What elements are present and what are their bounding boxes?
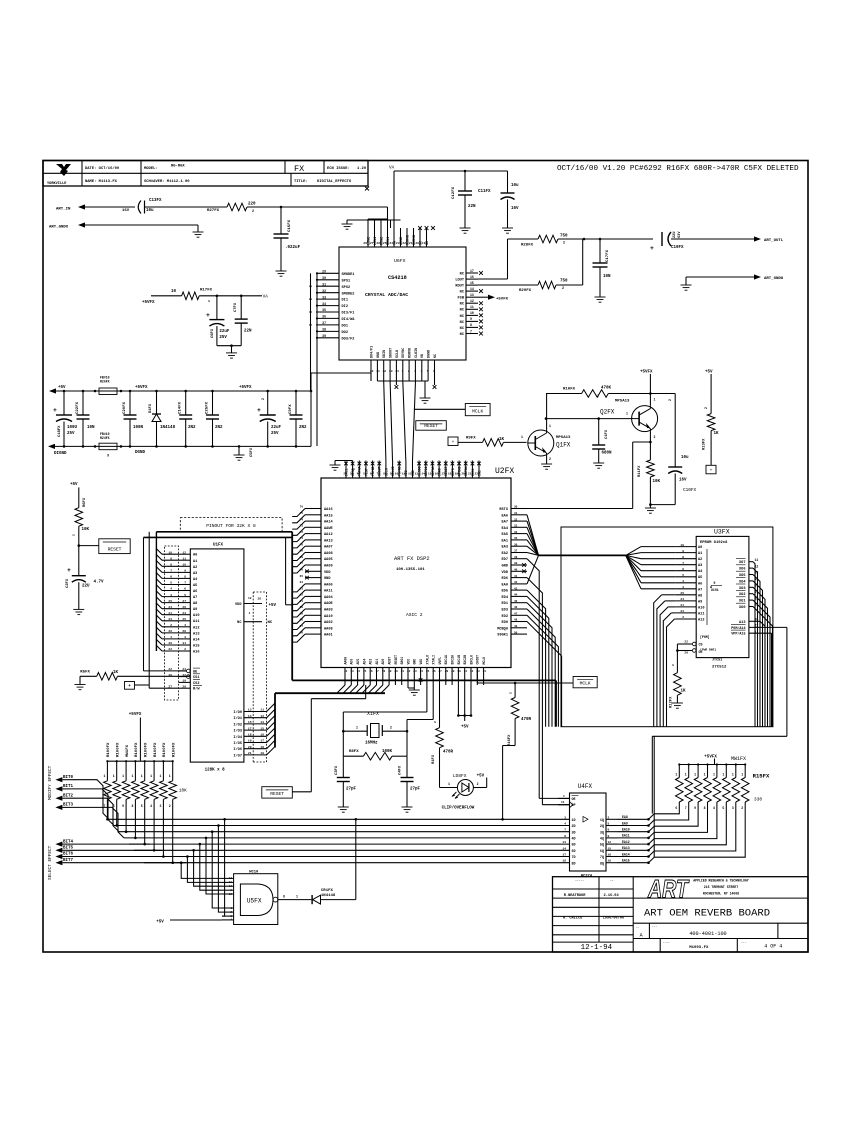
- svg-text:AD1: AD1: [375, 659, 379, 665]
- wire A4 connector fan: [156, 572, 179, 578]
- wire AA stair 12: [292, 584, 305, 592]
- U6FX pin 10 NC: [460, 311, 483, 319]
- svg-text:16: 16: [608, 854, 612, 857]
- U2FX top pin RESET: [441, 461, 448, 479]
- net EA8: [622, 815, 628, 819]
- svg-text:2: 2: [169, 804, 171, 808]
- U4FX pin 9 Q4: [600, 835, 617, 842]
- svg-text:1: 1: [654, 398, 656, 402]
- box PINOUT FOR 32K X 8: [180, 518, 282, 533]
- svg-text:DATE: OCT/16/00: DATE: OCT/16/00: [85, 166, 120, 171]
- svg-text:EA0: EA0: [502, 583, 508, 587]
- U2FX right pin ED4: [502, 594, 527, 600]
- net +5VFX resnet: [129, 713, 142, 761]
- svg-text:C6FX: C6FX: [211, 328, 215, 338]
- svg-text:2: 2: [704, 407, 708, 409]
- wire EA bus line: [539, 554, 626, 556]
- wire A1 connector fan: [156, 554, 179, 560]
- svg-text:--: --: [610, 880, 614, 883]
- svg-text:1: 1: [122, 774, 124, 778]
- wire R16FX down to bus: [501, 719, 515, 821]
- svg-text:+5V: +5V: [58, 386, 66, 390]
- svg-text:R1FX: R1FX: [432, 754, 436, 764]
- svg-text:5: 5: [682, 574, 684, 577]
- wire A3 connector fan: [156, 566, 179, 572]
- U2FX bottom pin XTALO: [425, 655, 429, 685]
- net +5VFX at R17FX: [142, 296, 182, 305]
- svg-text:750: 750: [560, 280, 568, 284]
- svg-text:A: A: [640, 933, 643, 939]
- svg-text:JTCS1: JTCS1: [712, 659, 722, 663]
- svg-text:11: 11: [260, 709, 264, 712]
- svg-text:LD8FX: LD8FX: [453, 773, 467, 779]
- U3FX pin A9: [676, 598, 703, 604]
- crystal X1FX: [356, 711, 392, 746]
- svg-text:GND: GND: [413, 659, 417, 665]
- svg-text:6: 6: [608, 829, 610, 832]
- wire EA to A1: [626, 553, 676, 556]
- svg-text:9: 9: [122, 804, 124, 808]
- wire OE feed: [144, 670, 187, 672]
- svg-text:1: 1: [704, 773, 706, 777]
- svg-text:20: 20: [415, 242, 419, 245]
- svg-text:+: +: [710, 468, 713, 473]
- wire resnet rail: [106, 760, 173, 762]
- svg-text:99GK1: 99GK1: [497, 634, 508, 638]
- wire AAOE jog: [286, 537, 293, 604]
- svg-text:28: 28: [182, 630, 186, 633]
- svg-text:2: 2: [608, 816, 610, 819]
- wire bus to U5FX input 7: [222, 818, 226, 916]
- svg-text:1: 1: [694, 773, 696, 777]
- svg-text:+5VFX: +5VFX: [129, 713, 142, 717]
- wire I/O fan 7: [267, 747, 275, 755]
- svg-text:C9FX: C9FX: [289, 404, 293, 414]
- wire AA stair 5: [292, 540, 305, 548]
- ground C2FX: [73, 609, 84, 614]
- svg-text:AA08: AA08: [324, 552, 333, 556]
- resistor network element 1: [654, 765, 683, 814]
- svg-text:3D: 3D: [572, 831, 576, 835]
- svg-text:100-1355-101: 100-1355-101: [396, 568, 425, 572]
- wire AA stair 3: [292, 527, 305, 535]
- svg-text:34: 34: [483, 670, 487, 673]
- svg-text:OCT/16/00 V1.20 PC#6292 R16FX: OCT/16/00 V1.20 PC#6292 R16FX 680R->470R…: [557, 165, 799, 173]
- diode CR1FX: [312, 889, 336, 904]
- svg-text:470K: 470K: [601, 387, 612, 391]
- svg-text:46: 46: [514, 606, 518, 609]
- net ART_GNDX: [49, 222, 85, 229]
- U4FX pin 13 D5: [562, 841, 575, 848]
- svg-text:49: 49: [514, 625, 518, 628]
- svg-text:4 OF 4: 4 OF 4: [764, 944, 782, 950]
- svg-text:8: 8: [470, 323, 472, 327]
- svg-text:1K: 1K: [113, 671, 119, 675]
- svg-text:18: 18: [382, 670, 386, 673]
- U6FX pin 13 FSB: [458, 293, 478, 301]
- wire XTALO link: [343, 685, 427, 731]
- U2FX bottom pin BXC2A: [451, 655, 455, 685]
- svg-text:DO2: DO2: [342, 331, 348, 335]
- svg-text:ADBT: ADBT: [388, 657, 392, 665]
- svg-text:SPS2: SPS2: [342, 286, 351, 290]
- U6FX pin 30 SPS1: [316, 276, 350, 284]
- svg-text:CLKIN: CLKIN: [415, 348, 419, 358]
- svg-text:6: 6: [682, 568, 684, 571]
- svg-text:10: 10: [680, 544, 684, 547]
- U1FX pin A15: [168, 642, 199, 648]
- box MCLK lower: [573, 677, 597, 688]
- wire bus to U5FX input 4: [205, 837, 222, 894]
- U1FX pin A13: [168, 630, 199, 636]
- svg-text:100N: 100N: [133, 426, 144, 430]
- svg-text:ART: ART: [647, 876, 690, 904]
- svg-text:2: 2: [672, 664, 675, 666]
- U3FX pin XO3: [736, 584, 758, 591]
- wire AA stair 13: [292, 590, 305, 598]
- wire crystal left: [342, 730, 367, 733]
- svg-text:SPS1: SPS1: [342, 279, 351, 283]
- wire BIT7 route: [70, 862, 186, 864]
- U4FX pin 18 D8: [562, 860, 575, 867]
- box RESET left: [78, 539, 131, 554]
- IC U3FX EPROM: [696, 529, 749, 670]
- svg-text:4: 4: [184, 624, 186, 627]
- U2FX top pin TEST: [363, 461, 368, 479]
- U2FX left pin VDD: [300, 569, 332, 575]
- svg-text:3: 3: [184, 636, 186, 639]
- U6FX pin 21 RSRVD: [409, 228, 417, 247]
- svg-text:19: 19: [260, 752, 264, 755]
- U6FX pin 23 AGND: [396, 228, 404, 247]
- wire bus to U5FX input 2: [192, 849, 222, 886]
- svg-text:ECN ISSUE:: ECN ISSUE:: [327, 167, 350, 171]
- net EA10: [622, 828, 630, 832]
- svg-text:19: 19: [608, 860, 612, 863]
- ground C6FX: [226, 353, 237, 358]
- svg-text:S8G1: S8G1: [400, 657, 404, 665]
- svg-text:LOUT: LOUT: [455, 278, 464, 282]
- svg-text:C25FX: C25FX: [206, 401, 210, 414]
- U2FX bottom pin BXCLK: [469, 655, 473, 685]
- svg-text:R100FX: R100FX: [117, 742, 121, 757]
- svg-text:SELECT EFFECT: SELECT EFFECT: [48, 845, 53, 880]
- IC U1FX RAM: [190, 544, 244, 773]
- svg-text:NAME: M1113-FX: NAME: M1113-FX: [85, 180, 118, 184]
- svg-text:11: 11: [561, 801, 565, 804]
- svg-text:10N: 10N: [87, 426, 95, 430]
- svg-text:31: 31: [514, 512, 518, 515]
- resistor R28FX: [508, 235, 569, 248]
- U1FX pin A5: [170, 582, 197, 588]
- U4FX pin 14 D6: [562, 847, 575, 854]
- U2FX bottom pin AD4: [362, 659, 366, 685]
- U1FX pin A3: [170, 570, 197, 576]
- svg-text:5: 5: [141, 804, 143, 808]
- svg-text:+5V: +5V: [477, 775, 485, 779]
- U2FX left pin AA08: [300, 550, 333, 556]
- svg-text:R100FX: R100FX: [107, 742, 111, 757]
- svg-text:A8: A8: [698, 594, 702, 598]
- capacitor C16FX: [257, 390, 282, 448]
- U6FX pin 16 LOUT: [455, 275, 478, 283]
- svg-text:25V: 25V: [271, 432, 279, 436]
- U3FX pin VPP/A15: [731, 630, 772, 637]
- wire bus to U5FX input 6: [217, 824, 222, 912]
- wire plus box to RW: [135, 684, 150, 686]
- svg-text:2: 2: [510, 692, 513, 694]
- svg-text:20: 20: [461, 473, 465, 476]
- svg-text:AA00: AA00: [343, 657, 347, 665]
- svg-text:44: 44: [514, 594, 518, 597]
- svg-text:EA12: EA12: [622, 840, 630, 844]
- wire LED left: [440, 787, 458, 789]
- svg-text:MCBQ0: MCBQ0: [497, 627, 508, 631]
- svg-text:GND: GND: [377, 352, 381, 358]
- U1FX pin CS1: [168, 674, 200, 680]
- wire R16FX tap: [514, 683, 516, 698]
- wire XO5 drop: [753, 575, 760, 727]
- svg-text:6: 6: [433, 370, 435, 373]
- svg-text:MODEL:: MODEL:: [144, 167, 158, 171]
- wire Q2FX emitter junction: [649, 432, 652, 444]
- svg-text:EA4: EA4: [502, 527, 509, 531]
- svg-text:AA06: AA06: [324, 583, 333, 587]
- U3FX pin XO7: [736, 558, 758, 565]
- resistor R100FX 5: [141, 742, 149, 845]
- svg-text:AA07: AA07: [324, 546, 333, 550]
- U2FX bottom pin GND: [413, 659, 417, 685]
- svg-text:33: 33: [322, 295, 326, 299]
- wire AD pin fan 4: [362, 685, 370, 693]
- svg-text:22U: 22U: [82, 585, 90, 589]
- U1FX pin I/O7: [233, 752, 266, 758]
- svg-text:2: 2: [597, 394, 599, 398]
- svg-text:ED2: ED2: [502, 615, 508, 619]
- svg-text:2: 2: [654, 435, 656, 439]
- svg-text:65: 65: [300, 575, 304, 578]
- svg-text:10K: 10K: [82, 528, 90, 532]
- svg-text:ROUT: ROUT: [455, 285, 464, 289]
- net BIT7: [55, 859, 73, 865]
- wire XO3 drop: [753, 587, 765, 726]
- svg-text:17: 17: [260, 740, 264, 743]
- svg-text:NC: NC: [268, 621, 273, 625]
- wire A12 feed: [667, 619, 676, 727]
- svg-text:24: 24: [420, 670, 424, 673]
- svg-text:PINOUT FOR 32K X 8: PINOUT FOR 32K X 8: [206, 523, 256, 529]
- svg-text:9: 9: [608, 835, 610, 838]
- U1FX pin A6: [170, 588, 197, 594]
- svg-text:CS: CS: [699, 644, 703, 648]
- svg-text:VA: VA: [263, 295, 269, 300]
- title block part number: [636, 926, 782, 951]
- wire EA13 to resnet: [617, 845, 654, 852]
- svg-text:5D: 5D: [572, 844, 576, 848]
- svg-text:4: 4: [421, 370, 423, 373]
- wire Q1FX collector: [546, 394, 548, 431]
- U6FX pin 39 DO3/F2: [316, 334, 354, 341]
- svg-text:34: 34: [322, 302, 326, 306]
- svg-text:9: 9: [184, 570, 186, 573]
- U6FX pin 31 SPS2: [316, 282, 350, 289]
- svg-text:21: 21: [248, 752, 252, 755]
- svg-text:U3FX: U3FX: [714, 529, 730, 536]
- svg-text:A16: A16: [193, 651, 199, 655]
- svg-text:A5: A5: [698, 576, 702, 580]
- svg-text:EA9: EA9: [622, 821, 628, 825]
- resistor R12FX: [670, 664, 687, 708]
- svg-text:37: 37: [514, 550, 518, 553]
- U6FX pin 24 VA: [389, 228, 397, 247]
- U1FX pin I/O1: [233, 715, 266, 721]
- net +5VFX at Q2FX: [640, 371, 653, 394]
- value 330: [754, 797, 763, 803]
- svg-text:27: 27: [182, 600, 186, 603]
- svg-text:BXC2B: BXC2B: [463, 655, 467, 665]
- wire EA vertical tie: [653, 736, 655, 857]
- svg-text:---: ---: [652, 926, 657, 929]
- svg-text:EA5: EA5: [502, 533, 508, 537]
- svg-text:13: 13: [248, 709, 252, 712]
- U6FX pin 42 SDIN: [383, 350, 388, 381]
- label C5FX deleted: [250, 447, 254, 457]
- svg-text:AA11: AA11: [324, 590, 333, 594]
- ground C15FX: [276, 271, 287, 276]
- U2FX bottom pin XTALI: [432, 655, 436, 685]
- wire A11 feed: [663, 613, 675, 727]
- svg-text:XTALO: XTALO: [425, 655, 429, 665]
- svg-text:1: 1: [141, 774, 143, 778]
- svg-text:DI3/F1: DI3/F1: [342, 311, 355, 316]
- svg-text:A13: A13: [193, 632, 199, 636]
- svg-text:BXC2A: BXC2A: [451, 655, 455, 665]
- U1FX pin A0: [168, 551, 197, 557]
- ground ART_GNDO: [681, 285, 692, 290]
- svg-text:1996/06/06: 1996/06/06: [603, 915, 625, 920]
- label MW1FX: [731, 756, 746, 762]
- svg-text:8: 8: [564, 835, 566, 838]
- svg-text:31: 31: [464, 670, 468, 673]
- svg-text:I/O6: I/O6: [233, 747, 242, 752]
- svg-text:I/O2: I/O2: [233, 722, 242, 727]
- label R15FX: [753, 773, 770, 780]
- U2FX top pin SCLKO: [390, 461, 395, 479]
- wire AA stair 16: [292, 609, 305, 617]
- svg-text:A7: A7: [698, 588, 702, 592]
- svg-text:1.20: 1.20: [357, 167, 367, 171]
- svg-text:1Q: 1Q: [600, 819, 604, 823]
- header text row1: [85, 164, 367, 174]
- svg-text:R8FX: R8FX: [349, 750, 359, 754]
- wire EA10 to resnet: [617, 826, 654, 833]
- net BIT5: [55, 847, 73, 853]
- U2FX right pin ED1: [502, 600, 527, 606]
- svg-text:22uF: 22uF: [219, 330, 230, 334]
- U2FX bottom pin AD0: [381, 659, 385, 685]
- svg-text:VD: VD: [421, 354, 425, 358]
- svg-text:10K: 10K: [653, 480, 661, 484]
- svg-text:26: 26: [376, 242, 380, 245]
- svg-text:1K: 1K: [499, 438, 505, 442]
- U4FX pin 12 Q5: [600, 841, 617, 848]
- wire OE feed U4FX: [539, 797, 569, 799]
- net BIT6: [55, 853, 73, 859]
- ground U2FX bottom: [409, 690, 420, 695]
- svg-text:18: 18: [260, 746, 264, 749]
- svg-text:39: 39: [322, 334, 326, 338]
- wire AA stair 17: [292, 615, 305, 623]
- svg-text:10: 10: [470, 311, 474, 315]
- svg-text:A5: A5: [193, 584, 197, 588]
- U1FX pin I/O2: [233, 721, 266, 727]
- wire AD pin fan 2: [349, 685, 357, 693]
- wire I/O fan 6: [267, 740, 275, 748]
- svg-text:ED3: ED3: [502, 609, 508, 613]
- wire input to LIN pins: [368, 207, 388, 228]
- connector dashed box U1FX left: [165, 546, 179, 700]
- svg-text:GND: GND: [502, 565, 509, 569]
- svg-text:AD5: AD5: [356, 659, 360, 665]
- net EA14: [622, 852, 630, 856]
- capacitor C1FX: [592, 419, 612, 463]
- svg-text:C14FX: C14FX: [179, 401, 183, 414]
- box MCLK upper: [465, 404, 490, 416]
- IC U5FX NAND: [234, 870, 278, 924]
- svg-text:AA12: AA12: [324, 533, 333, 537]
- svg-text:ART_IN: ART_IN: [56, 208, 71, 212]
- U1FX pin I/O4: [233, 734, 266, 740]
- wire XO2 drop: [753, 594, 768, 727]
- svg-text:I/O7: I/O7: [233, 753, 242, 758]
- capacitor C20FX: [123, 390, 144, 448]
- svg-text:100U: 100U: [67, 426, 78, 430]
- svg-text:27: 27: [439, 670, 443, 673]
- svg-text:4: 4: [713, 806, 715, 810]
- resistor R17FX: [171, 289, 213, 300]
- svg-text:AA13: AA13: [324, 539, 333, 543]
- svg-text:FX: FX: [294, 164, 304, 174]
- svg-text:ED4: ED4: [502, 596, 509, 600]
- svg-text:40: 40: [514, 569, 518, 572]
- svg-text:C5FX: C5FX: [250, 447, 254, 457]
- wire SSYNC down: [403, 381, 406, 461]
- ground ART_GNDX: [193, 232, 204, 237]
- ART logo: [647, 876, 690, 904]
- svg-text:C2FX: C2FX: [66, 578, 70, 588]
- U3FX pin OE: [677, 649, 702, 655]
- svg-text:25: 25: [426, 670, 430, 673]
- wire EA11 to resnet: [617, 832, 654, 839]
- svg-text:A15: A15: [193, 645, 199, 649]
- U1FX pin A4: [170, 576, 198, 582]
- svg-text:U5FX: U5FX: [247, 898, 262, 905]
- svg-text:A10: A10: [193, 614, 199, 618]
- U6FX pin 38 DO2: [316, 328, 348, 335]
- svg-text:ART OEM REVERB BOARD: ART OEM REVERB BOARD: [644, 908, 770, 920]
- terminal RSFX: [448, 437, 458, 446]
- svg-text:CLIP/OVERFLOW: CLIP/OVERFLOW: [442, 806, 475, 811]
- svg-text:13: 13: [470, 293, 474, 297]
- svg-text:SMODE2: SMODE2: [342, 292, 355, 296]
- net EA13: [622, 846, 630, 850]
- svg-text:10: 10: [229, 893, 233, 896]
- wire XO4 drop: [753, 581, 763, 727]
- IC U6FX CS4218: [339, 247, 466, 360]
- svg-text:A10: A10: [698, 606, 704, 610]
- title text: [644, 908, 770, 920]
- svg-text:R100FX: R100FX: [154, 742, 158, 757]
